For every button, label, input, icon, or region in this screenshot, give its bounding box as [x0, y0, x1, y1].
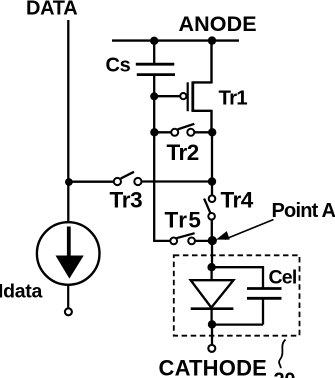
wire cathode lead	[211, 324, 213, 345]
dashed box OLED element 20	[174, 255, 300, 335]
net label ANODE	[179, 12, 257, 36]
junction dot DATA/Tr3	[65, 178, 73, 186]
wire right vertical Tr3 to Tr4	[211, 182, 213, 196]
junction dot anode-left	[150, 37, 158, 45]
svg-text:Tr2: Tr2	[167, 140, 199, 165]
junction dot Tr2 right	[208, 128, 216, 136]
wire left vertical to Cs	[153, 41, 155, 63]
wire OLED top lead	[210, 267, 212, 280]
reference label Tr3	[110, 188, 143, 213]
value label Cs	[106, 55, 131, 77]
svg-text:CATHODE: CATHODE	[159, 356, 268, 378]
net label DATA	[26, 0, 77, 20]
leader squiggle for reference 20	[279, 340, 285, 369]
net label CATHODE	[159, 356, 268, 378]
svg-text:DATA: DATA	[26, 0, 77, 20]
wire right vertical Tr2 to Tr3	[211, 132, 213, 181]
svg-text:Tr4: Tr4	[221, 188, 254, 213]
wire Cs bottom lead	[153, 75, 155, 97]
junction dot anode-right	[208, 36, 216, 44]
transistor Tr1	[180, 41, 211, 133]
svg-text:Tr5: Tr5	[165, 207, 203, 232]
svg-text:Cs: Cs	[106, 55, 131, 77]
switch Tr4	[204, 195, 215, 240]
value label Idata	[0, 281, 42, 303]
switch Tr2	[154, 124, 212, 136]
svg-text:Point A: Point A	[272, 200, 335, 222]
junction dot OLED top	[207, 263, 215, 271]
wire DATA vertical	[67, 20, 69, 223]
junction dot OLED bottom	[208, 320, 216, 328]
reference label Tr1	[219, 87, 248, 110]
svg-text:ANODE: ANODE	[179, 12, 257, 36]
wire Idata bottom lead	[67, 285, 69, 309]
capacitor Cel	[212, 267, 282, 324]
terminal CATHODE open circle	[208, 345, 215, 352]
switch Tr3	[69, 172, 212, 185]
terminal Idata open circle	[65, 308, 72, 315]
reference label Tr4	[221, 188, 254, 213]
reference label Tr2	[167, 140, 199, 165]
diode OLED	[191, 280, 234, 324]
svg-text:Tr1: Tr1	[219, 87, 248, 110]
svg-text:20: 20	[274, 370, 296, 378]
junction dot Cs/gate node	[150, 92, 158, 100]
node Point A junction dot	[208, 236, 217, 245]
svg-text:Tr3: Tr3	[110, 188, 143, 213]
wire Point A to OLED	[211, 241, 213, 268]
reference label Tr5	[165, 207, 203, 232]
node label Point A	[272, 200, 335, 222]
svg-text:Cel: Cel	[269, 267, 297, 289]
reference numeral 20	[274, 370, 296, 378]
wire ANODE horizontal	[112, 39, 239, 41]
svg-text:Idata: Idata	[0, 281, 42, 303]
junction dot Tr3 right	[208, 177, 216, 185]
junction dot Tr2 left	[150, 128, 158, 136]
wire left vertical main	[153, 96, 155, 241]
switch Tr5	[154, 233, 212, 244]
wire Tr1 gate lead	[154, 95, 180, 97]
value label Cel	[269, 267, 297, 289]
current source Idata	[37, 222, 100, 285]
capacitor Cs	[136, 64, 175, 74]
arrow Point A leader	[216, 220, 274, 240]
